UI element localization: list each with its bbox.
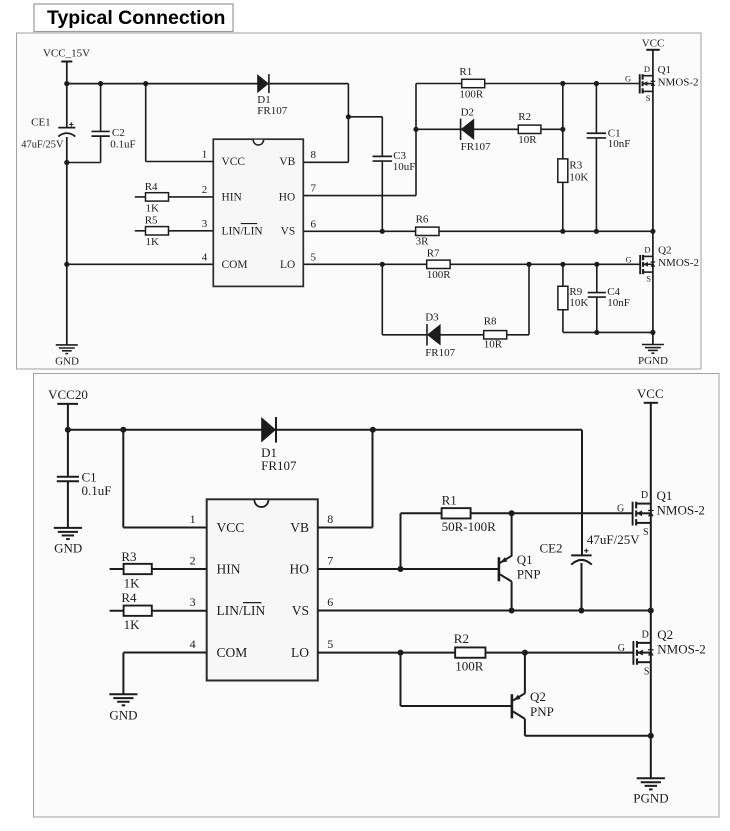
svg-text:2: 2 bbox=[202, 184, 208, 196]
svg-text:D: D bbox=[642, 629, 649, 640]
svg-text:3: 3 bbox=[190, 595, 196, 609]
svg-text:4: 4 bbox=[190, 637, 196, 651]
svg-text:8: 8 bbox=[327, 512, 333, 526]
svg-text:10K: 10K bbox=[569, 171, 588, 183]
svg-text:D: D bbox=[641, 490, 648, 501]
svg-text:VCC20: VCC20 bbox=[48, 387, 88, 402]
svg-text:GND: GND bbox=[109, 707, 137, 722]
svg-text:1K: 1K bbox=[124, 576, 141, 591]
svg-text:2: 2 bbox=[190, 553, 196, 567]
svg-text:0.1uF: 0.1uF bbox=[110, 138, 135, 150]
svg-text:Q2: Q2 bbox=[657, 627, 673, 642]
svg-text:D3: D3 bbox=[425, 312, 439, 324]
svg-text:CE2: CE2 bbox=[539, 541, 562, 556]
svg-text:D: D bbox=[644, 64, 650, 74]
svg-text:1K: 1K bbox=[146, 236, 160, 248]
svg-text:S: S bbox=[646, 93, 651, 103]
svg-text:10R: 10R bbox=[484, 339, 503, 351]
svg-text:R1: R1 bbox=[459, 66, 472, 78]
svg-text:S: S bbox=[643, 527, 649, 538]
svg-text:G: G bbox=[618, 643, 625, 654]
svg-text:10K: 10K bbox=[569, 297, 588, 309]
svg-text:LO: LO bbox=[280, 259, 295, 271]
svg-text:VB: VB bbox=[279, 156, 295, 168]
svg-text:4: 4 bbox=[202, 251, 208, 263]
svg-text:7: 7 bbox=[311, 183, 317, 195]
svg-text:FR107: FR107 bbox=[461, 141, 491, 153]
svg-text:HO: HO bbox=[290, 561, 310, 576]
svg-text:100R: 100R bbox=[455, 658, 484, 673]
svg-text:D: D bbox=[644, 244, 650, 254]
svg-text:6: 6 bbox=[311, 218, 317, 230]
svg-text:3: 3 bbox=[202, 218, 208, 230]
svg-text:R5: R5 bbox=[145, 215, 158, 227]
svg-text:1: 1 bbox=[190, 512, 196, 526]
svg-text:G: G bbox=[626, 254, 632, 264]
svg-text:R4: R4 bbox=[121, 590, 137, 605]
svg-text:6: 6 bbox=[327, 595, 333, 609]
svg-text:10nF: 10nF bbox=[608, 138, 631, 150]
svg-text:NMOS-2: NMOS-2 bbox=[657, 642, 705, 657]
svg-text:3R: 3R bbox=[416, 236, 430, 248]
svg-text:Q1: Q1 bbox=[517, 552, 533, 567]
svg-text:VCC: VCC bbox=[642, 37, 665, 49]
svg-text:FR107: FR107 bbox=[425, 347, 455, 359]
svg-text:R3: R3 bbox=[569, 160, 582, 172]
svg-text:8: 8 bbox=[311, 149, 317, 161]
svg-text:100R: 100R bbox=[459, 88, 484, 100]
svg-text:1: 1 bbox=[202, 149, 208, 161]
svg-text:S: S bbox=[644, 666, 650, 677]
svg-text:PGND: PGND bbox=[638, 355, 668, 367]
svg-text:Typical Connection: Typical Connection bbox=[47, 7, 225, 29]
svg-text:G: G bbox=[625, 74, 631, 84]
svg-text:Q1: Q1 bbox=[658, 64, 671, 76]
svg-text:D2: D2 bbox=[461, 107, 474, 119]
svg-text:S: S bbox=[646, 274, 651, 284]
svg-text:VCC: VCC bbox=[217, 520, 245, 535]
svg-text:100R: 100R bbox=[427, 269, 452, 281]
svg-text:HIN: HIN bbox=[217, 561, 241, 576]
svg-text:PNP: PNP bbox=[530, 704, 554, 719]
svg-text:NMOS-2: NMOS-2 bbox=[658, 76, 699, 88]
svg-text:50R-100R: 50R-100R bbox=[442, 519, 497, 534]
svg-text:47uF/25V: 47uF/25V bbox=[21, 139, 64, 150]
svg-text:R2: R2 bbox=[518, 111, 531, 123]
svg-text:COM: COM bbox=[217, 645, 248, 660]
svg-text:7: 7 bbox=[327, 553, 333, 567]
svg-text:CE1: CE1 bbox=[31, 117, 51, 129]
svg-text:VS: VS bbox=[292, 603, 309, 618]
svg-text:10R: 10R bbox=[518, 134, 537, 146]
svg-text:Q2: Q2 bbox=[658, 245, 671, 257]
svg-text:GND: GND bbox=[55, 355, 79, 367]
svg-text:C2: C2 bbox=[112, 127, 125, 139]
svg-text:HIN: HIN bbox=[222, 192, 242, 204]
svg-text:VS: VS bbox=[281, 226, 296, 238]
svg-text:R4: R4 bbox=[145, 181, 158, 193]
svg-text:1K: 1K bbox=[146, 203, 160, 215]
svg-text:10nF: 10nF bbox=[607, 297, 630, 309]
svg-text:PNP: PNP bbox=[517, 566, 541, 581]
svg-text:LIN/LIN: LIN/LIN bbox=[217, 603, 266, 618]
svg-text:FR107: FR107 bbox=[257, 105, 287, 117]
svg-text:NMOS-2: NMOS-2 bbox=[658, 257, 699, 269]
svg-text:Q2: Q2 bbox=[530, 689, 546, 704]
svg-text:R1: R1 bbox=[442, 492, 457, 507]
svg-text:5: 5 bbox=[311, 251, 317, 263]
svg-text:LO: LO bbox=[291, 645, 309, 660]
svg-text:R6: R6 bbox=[416, 214, 429, 226]
svg-text:47uF/25V: 47uF/25V bbox=[587, 532, 640, 547]
svg-text:HO: HO bbox=[279, 192, 295, 204]
svg-text:COM: COM bbox=[222, 259, 248, 271]
svg-text:R3: R3 bbox=[121, 549, 136, 564]
svg-text:R8: R8 bbox=[484, 316, 497, 328]
svg-text:Q1: Q1 bbox=[657, 488, 673, 503]
svg-text:VCC: VCC bbox=[637, 386, 664, 401]
svg-text:LIN/LIN: LIN/LIN bbox=[222, 226, 263, 238]
svg-text:5: 5 bbox=[327, 637, 333, 651]
svg-text:NMOS-2: NMOS-2 bbox=[657, 502, 705, 517]
svg-text:VCC_15V: VCC_15V bbox=[43, 48, 90, 60]
svg-text:R7: R7 bbox=[427, 247, 440, 259]
svg-text:VB: VB bbox=[290, 520, 309, 535]
svg-text:1K: 1K bbox=[124, 617, 141, 632]
svg-text:FR107: FR107 bbox=[261, 458, 297, 473]
svg-text:10uF: 10uF bbox=[393, 161, 416, 173]
svg-text:G: G bbox=[617, 504, 624, 515]
svg-text:GND: GND bbox=[54, 541, 82, 556]
svg-text:VCC: VCC bbox=[222, 156, 245, 168]
svg-text:PGND: PGND bbox=[633, 791, 668, 806]
svg-text:R2: R2 bbox=[454, 631, 469, 646]
svg-text:0.1uF: 0.1uF bbox=[82, 483, 112, 498]
